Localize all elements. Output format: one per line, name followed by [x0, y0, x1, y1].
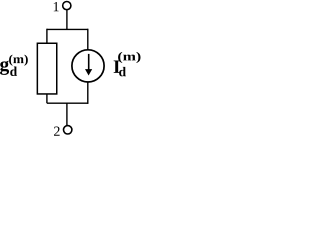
wire bottom bus to terminal 2 — [66, 103, 68, 126]
wire current source to bottom bus — [87, 82, 89, 104]
label g sub d — [10, 67, 17, 76]
current source arrowhead — [85, 69, 92, 75]
wire top bus — [47, 28, 88, 30]
resistor gd box — [37, 43, 56, 94]
wire top bus to resistor — [46, 29, 48, 44]
label I_d^(m) : base I — [114, 60, 120, 72]
terminal node 1 — [63, 2, 71, 10]
wire terminal 1 to top bus — [66, 10, 68, 30]
wire bottom bus — [47, 102, 88, 104]
label g sup (m) — [9, 55, 28, 66]
terminal node 2 — [63, 126, 71, 134]
wire top bus to current source — [87, 29, 89, 50]
label g_d^(m) : base g — [0, 61, 9, 75]
current source Id circle — [72, 50, 104, 82]
node 1 label — [54, 2, 59, 11]
current source arrow shaft — [88, 54, 90, 70]
label I sup (m) — [118, 52, 140, 63]
node 2 label — [54, 127, 60, 136]
label I sub d — [119, 67, 126, 76]
wire resistor to bottom bus — [46, 94, 48, 103]
